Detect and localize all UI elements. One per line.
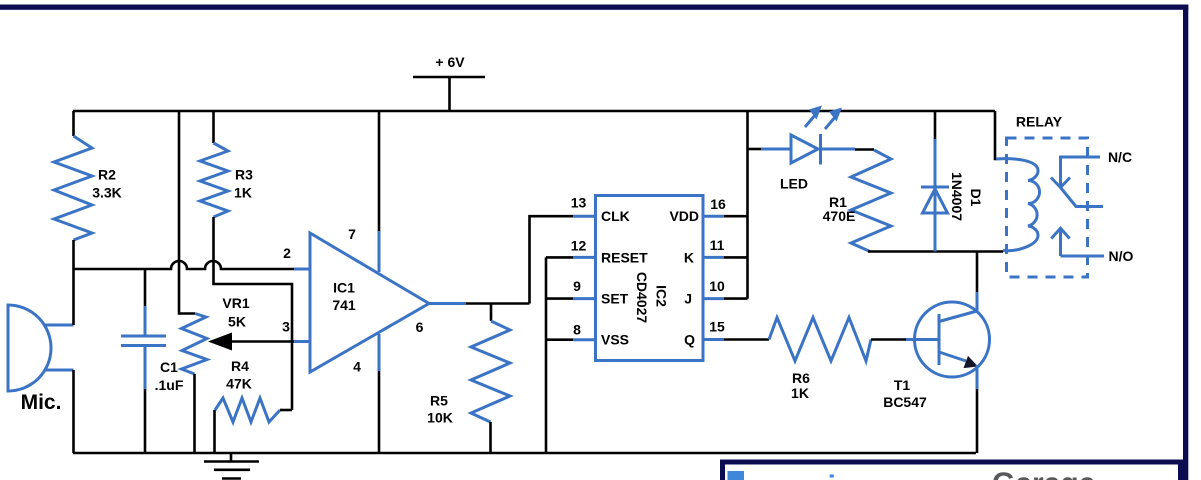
svg-text:Q: Q [684, 332, 695, 348]
svg-text:+ 6V: + 6V [435, 54, 465, 70]
svg-text:15: 15 [709, 319, 725, 335]
svg-text:R5: R5 [430, 393, 448, 409]
resistor R1 [823, 150, 891, 252]
wire R5 top lead [490, 304, 493, 322]
transistor T1 [883, 302, 989, 410]
wire SET pin 9 [546, 297, 573, 300]
svg-text:3.3K: 3.3K [92, 185, 122, 201]
wire K pin 11 [703, 256, 724, 259]
IC2 CD4027 [596, 196, 704, 361]
svg-text:VSS: VSS [601, 332, 629, 348]
wire R5 bottom lead [489, 422, 492, 453]
wire pin 4 to ground bus [378, 334, 381, 371]
svg-text:8: 8 [573, 322, 581, 338]
resistor R5 [427, 321, 510, 426]
resistor R2 [54, 136, 122, 240]
wire R6 to base [871, 338, 906, 341]
EngineersGarage watermark [723, 462, 1181, 480]
svg-text:D1: D1 [968, 189, 984, 207]
svg-text:10: 10 [709, 278, 725, 294]
wire R1/D1/relay bottom rail [868, 250, 1003, 253]
svg-text:.1uF: .1uF [155, 377, 184, 393]
wire LED to R1 [855, 148, 874, 151]
svg-text:1K: 1K [234, 185, 252, 201]
wire node A vertical to mic [72, 269, 75, 325]
svg-text:SET: SET [601, 291, 629, 307]
wire mic top terminal [45, 324, 74, 327]
svg-text:6: 6 [416, 319, 424, 335]
wire op-amp output pin 6 [429, 302, 466, 305]
svg-text:470E: 470E [823, 208, 856, 224]
wire RESET pin 12 [546, 256, 573, 259]
resistor R6 [769, 318, 871, 402]
svg-text:Mic.: Mic. [21, 391, 62, 414]
svg-text:Garage: Garage [992, 467, 1095, 480]
relay coil [996, 159, 1040, 251]
wire J pin 10 [703, 297, 724, 300]
wire VR1 bottom to ground bus [193, 374, 196, 453]
wire R4 left lead to ground bus [213, 410, 216, 453]
wire ground bus [73, 452, 976, 455]
svg-text:VR1: VR1 [222, 295, 249, 311]
relay N/O contact [1051, 228, 1104, 256]
svg-text:RESET: RESET [601, 249, 648, 265]
wire D1 top lead [934, 111, 937, 139]
wire C1 bottom lead [144, 389, 147, 453]
svg-text:IC1: IC1 [333, 280, 355, 296]
svg-text:1K: 1K [791, 385, 809, 401]
wire VSS pin 8 [546, 338, 573, 341]
svg-text:5K: 5K [228, 314, 246, 330]
svg-text:3: 3 [282, 319, 290, 335]
wire mic to ground bus [72, 370, 75, 453]
svg-text:CLK: CLK [601, 208, 630, 224]
wire LED branch stub [748, 148, 762, 151]
resistor R3 [200, 143, 253, 217]
op-amp IC1 741 [310, 233, 429, 372]
svg-text:2: 2 [283, 245, 291, 261]
wire +6V top bus [73, 110, 995, 113]
wire +6V to VR1 top [179, 111, 195, 314]
wire Q pin 15 to R6 [703, 338, 724, 341]
wire R3 top lead [212, 111, 215, 143]
svg-text:IC2: IC2 [654, 285, 670, 307]
svg-text:4: 4 [353, 359, 361, 375]
frame top bar [0, 5, 1188, 10]
capacitor C1 [121, 306, 184, 393]
frame right bar [1183, 5, 1188, 480]
svg-text:LED: LED [780, 176, 808, 192]
+6V supply symbol [413, 54, 485, 111]
wire R2 top lead [72, 111, 75, 136]
svg-text:K: K [684, 249, 694, 265]
svg-text:R4: R4 [231, 358, 249, 374]
svg-text:T1: T1 [894, 377, 911, 393]
svg-text:R6: R6 [792, 370, 810, 386]
svg-text:N/O: N/O [1109, 248, 1134, 264]
relay N/C contact [1051, 157, 1103, 207]
svg-text:1N4007: 1N4007 [949, 172, 965, 221]
svg-text:R3: R3 [235, 167, 253, 183]
wire mic bottom terminal [45, 369, 74, 372]
wire VR1 wiper to pin 3 node [232, 340, 294, 343]
wire VDD pin 16 [703, 215, 724, 218]
svg-text:N/C: N/C [1108, 149, 1132, 165]
potentiometer VR1 [182, 295, 250, 374]
svg-text:VDD: VDD [669, 208, 699, 224]
svg-text:10K: 10K [427, 410, 453, 426]
svg-text:11: 11 [710, 237, 725, 253]
LED [761, 106, 855, 192]
resistor R4 [215, 358, 280, 422]
svg-text:9: 9 [573, 278, 581, 294]
microphone Mic [8, 305, 61, 414]
wire C1 top lead [144, 269, 147, 306]
svg-text:7: 7 [348, 226, 356, 242]
svg-text:RELAY: RELAY [1016, 114, 1063, 130]
svg-text:ngineers: ngineers [788, 470, 925, 480]
wire emitter to ground bus [976, 365, 979, 389]
svg-text:CD4027: CD4027 [634, 272, 650, 324]
svg-text:J: J [684, 291, 692, 307]
wire node A to op-amp pin 2 (with crossovers) [74, 261, 295, 269]
svg-text:16: 16 [710, 196, 726, 212]
svg-text:R2: R2 [98, 167, 116, 183]
svg-text:47K: 47K [226, 376, 252, 392]
wire collector to relay rail [976, 252, 979, 293]
wire R3 bottom to pin 3 node [214, 217, 293, 410]
wire pin 7 to +6V bus [378, 111, 381, 231]
svg-text:741: 741 [332, 297, 356, 313]
svg-text:12: 12 [571, 237, 587, 253]
wire R4 right lead [280, 409, 292, 412]
svg-text:13: 13 [571, 195, 587, 211]
wire output to CLK pin 13 [530, 216, 574, 303]
wire +6V bus to relay coil [995, 111, 997, 159]
wire R2 bottom lead to node A [72, 240, 75, 269]
wire RESET/SET/VSS ground line [545, 257, 548, 453]
wire VDD/K/J to +6V bus [746, 111, 749, 299]
svg-text:C1: C1 [160, 359, 178, 375]
svg-text:BC547: BC547 [883, 394, 927, 410]
ground symbol [204, 453, 259, 479]
diode D1 [921, 139, 984, 252]
relay dashed box [1007, 138, 1088, 277]
